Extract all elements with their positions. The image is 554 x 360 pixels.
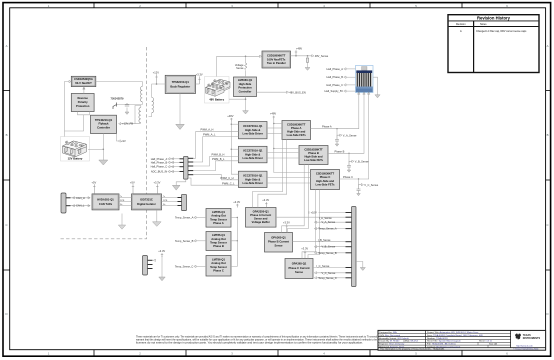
wire reverse polarity to NexFET arrow <box>83 87 85 94</box>
svg-text:Low-Side FETs: Low-Side FETs <box>287 133 307 137</box>
svg-text:Hall_Supply_5V: Hall_Supply_5V <box>325 89 344 93</box>
svg-text:A: A <box>6 44 8 48</box>
junction +12V <box>156 83 158 85</box>
chevron into CSD19506 <box>260 55 262 57</box>
phase B voltage sense divider and label <box>347 153 369 173</box>
svg-text:Flyback: Flyback <box>98 122 109 126</box>
svg-text:PWM_A_H: PWM_A_H <box>201 128 214 132</box>
svg-text:Sense: Sense <box>236 66 244 70</box>
svg-text:© Texas Instruments 2014: © Texas Instruments 2014 <box>513 348 539 351</box>
svg-text:V_C_Sense: V_C_Sense <box>364 183 378 187</box>
net label +9V <box>117 134 126 144</box>
svg-text:High-Side: High-Side <box>239 82 252 86</box>
svg-text:100V NexFETs: 100V NexFETs <box>267 57 286 61</box>
block U7 UCC27201A-Q1 driver A <box>239 122 268 139</box>
svg-text:D: D <box>5 312 7 316</box>
wire phase A shunt to OPA2350 <box>253 140 283 208</box>
svg-text:Sense: Sense <box>295 270 303 274</box>
svg-text:Revision History: Revision History <box>477 16 511 21</box>
wire aux winding to controller <box>121 123 141 125</box>
ground right of sense connector <box>356 262 365 271</box>
zone ticks top <box>94 3 462 8</box>
svg-text:Phase A: Phase A <box>322 125 332 129</box>
V_C_Sense into connector <box>314 271 345 275</box>
PWM_B_H wire <box>193 152 238 166</box>
svg-text:HVDA551-Q1: HVDA551-Q1 <box>97 197 114 201</box>
capacitor C1 flyback snubber <box>125 103 129 106</box>
wire reverse polarity to battery junction <box>65 115 84 131</box>
wire phase A output to motor <box>311 92 361 129</box>
svg-text:PWM_C_H: PWM_C_H <box>221 176 234 180</box>
ground below CAN transceiver <box>118 214 125 230</box>
svg-text:+10V: +10V <box>311 211 317 215</box>
svg-text:Rx: Rx <box>163 204 165 206</box>
svg-text:ADC_BUS_IN: ADC_BUS_IN <box>151 170 167 174</box>
svg-text:Tx: Tx <box>163 196 165 198</box>
ground below 48V sense divider <box>305 62 310 70</box>
svg-text:+3.3V: +3.3V <box>196 73 203 77</box>
power +3.3V isolator right <box>154 180 161 194</box>
ground below digital isolator <box>153 210 162 226</box>
wires CAN transceiver to isolator Tx /STB Rx <box>119 196 132 206</box>
wire battery negative to ground rail <box>88 148 103 150</box>
svg-text:V_B_Sense: V_B_Sense <box>355 159 369 163</box>
svg-text:Temp_Sense_C: Temp_Sense_C <box>318 276 337 280</box>
wire secondary to +12V rail <box>152 84 166 98</box>
svg-text:High-Side and: High-Side and <box>304 155 322 159</box>
power +48V fet rail <box>270 112 276 120</box>
zone ticks bottom <box>94 350 462 357</box>
svg-text:Number: TIDA-00281: Number: TIDA-00281 <box>427 337 449 340</box>
svg-text:Phase B: Phase B <box>335 149 345 153</box>
svg-text:Controller: Controller <box>97 125 110 129</box>
svg-text:Digital Isolator: Digital Isolator <box>137 202 156 206</box>
block U10 HVDA551-Q1 CAN TxRx <box>92 194 119 210</box>
Temp_Sense_A into connector <box>314 227 345 231</box>
svg-text:CAN TxRx: CAN TxRx <box>99 202 113 206</box>
wires driver C to phase C fets <box>267 178 311 184</box>
connector J2 controller interface connector <box>180 156 194 179</box>
svg-text:Temp_Sense_B: Temp_Sense_B <box>318 251 337 255</box>
svg-text:C: C <box>546 223 548 227</box>
wires driver B to phase B fets <box>267 153 299 159</box>
ground below flyback controller <box>99 134 108 166</box>
isolation dashed boundary <box>61 47 147 239</box>
wire fet +48V rail <box>273 120 310 173</box>
svg-text:60-V NexFET: 60-V NexFET <box>75 81 92 85</box>
svg-text:Analog Out: Analog Out <box>211 214 226 218</box>
svg-text:Designed for: N/A: Designed for: N/A <box>379 331 397 334</box>
svg-text:PWM_C_L: PWM_C_L <box>222 182 235 186</box>
node chevron into NexFET <box>69 80 71 82</box>
block U5 LM5060-Q1 High-Side Protection Controller <box>234 77 257 97</box>
title block <box>378 330 546 350</box>
wire reverse polarity bottom loop <box>78 112 90 115</box>
svg-text:High-Side &: High-Side & <box>245 152 260 156</box>
svg-text:UCC27201A-Q1: UCC27201A-Q1 <box>243 124 263 128</box>
svg-text:High-Side &: High-Side & <box>245 177 260 181</box>
wire phase B shunt to OPA365 B <box>282 165 305 233</box>
svg-text:Low-Side Driver: Low-Side Driver <box>242 181 262 185</box>
svg-text:Desc: TIDA-00281 Complete Boar: Desc: TIDA-00281 Complete Board, 100V To… <box>427 334 483 337</box>
svg-text:Phase C: Phase C <box>213 268 224 272</box>
svg-text:Low-Side Driver: Low-Side Driver <box>242 132 262 136</box>
svg-text:Voltage Buffer: Voltage Buffer <box>252 220 270 224</box>
svg-text:Two in Parallel: Two in Parallel <box>267 61 286 65</box>
svg-text:12V Battery: 12V Battery <box>68 156 83 160</box>
svg-text:+3.3V: +3.3V <box>158 249 165 253</box>
temp sense C label from LMT86 C <box>175 264 206 268</box>
svg-text:I_A_Sense: I_A_Sense <box>319 216 333 220</box>
svg-text:LMT86-Q1: LMT86-Q1 <box>212 210 225 214</box>
svg-text:Temp_Sense_A: Temp_Sense_A <box>318 227 337 231</box>
svg-text:Phase A: Phase A <box>213 221 224 225</box>
svg-text:+3.3V: +3.3V <box>154 180 161 184</box>
svg-text:Rx: Rx <box>120 204 122 206</box>
power +12V <box>153 70 159 84</box>
block Q1 CSD19536KTT Phase A FETs <box>282 121 311 140</box>
wire CAN_H <box>71 196 91 200</box>
ground below buck regulator <box>176 94 185 130</box>
svg-text:High-Side and: High-Side and <box>316 179 334 183</box>
svg-text:Low-Side Driver: Low-Side Driver <box>242 156 262 160</box>
svg-text:V_B_Sense: V_B_Sense <box>322 245 336 249</box>
svg-text:OPA365-Q1: OPA365-Q1 <box>271 236 286 240</box>
svg-text:Phase B Current: Phase B Current <box>268 240 289 244</box>
PWM_A_H wire <box>193 128 238 159</box>
net label 48V_BUS_EN <box>287 90 306 94</box>
svg-text:CAN_H: CAN_H <box>76 196 85 200</box>
TI logo <box>515 334 540 348</box>
power +48V driver rail <box>227 114 233 122</box>
svg-text:CAN_L: CAN_L <box>76 204 85 208</box>
svg-text:Low-Side FETs: Low-Side FETs <box>304 158 324 162</box>
wire OPA2350 to connector I_A_Sense <box>276 216 346 220</box>
power +3.3V opa365 C <box>301 247 308 259</box>
svg-text:LMT86-Q1: LMT86-Q1 <box>212 258 225 262</box>
svg-text:Controller: Controller <box>239 89 252 93</box>
PWM_A_L wire <box>193 133 238 163</box>
power +5V can <box>92 180 97 194</box>
resistor divider voltage sense <box>245 56 248 77</box>
svg-text:D: D <box>546 312 548 316</box>
power +5V isolator left <box>130 180 135 194</box>
svg-text:Sheet 1 of 11: Sheet 1 of 11 <box>479 340 493 343</box>
disclaimer paragraph <box>136 336 378 345</box>
svg-text:Phase A Current: Phase A Current <box>250 213 271 217</box>
ground below aux connector rail <box>159 256 165 281</box>
shunt resistor to 48V sense divider <box>306 55 308 62</box>
svg-text:750342879: 750342879 <box>111 97 125 101</box>
Temp_Sense_B into connector <box>314 251 345 255</box>
svg-text:Phase C: Phase C <box>343 175 353 179</box>
svg-text:File: TIDA-00281_Blk.SchDoc: File: TIDA-00281_Blk.SchDoc <box>427 343 457 346</box>
wire secondary bottom to ground stub <box>149 113 152 117</box>
svg-text:Phase B: Phase B <box>308 151 319 155</box>
block U15 OPA2350-Q1 phase A current sense and voltage buffer <box>246 208 277 228</box>
svg-text:Sense and: Sense and <box>254 217 268 221</box>
svg-text:Protection: Protection <box>238 86 252 90</box>
svg-text:Phase A: Phase A <box>291 126 302 130</box>
battery BT1 12V Battery <box>61 137 90 162</box>
svg-text:+3.3V: +3.3V <box>283 220 290 224</box>
svg-text:+3.3V: +3.3V <box>233 200 240 204</box>
svg-text:+3.3V: +3.3V <box>262 198 269 202</box>
net label 48V_Sense <box>312 54 329 58</box>
svg-text:PWM_B_H: PWM_B_H <box>212 152 225 156</box>
temp sense B label from LMT86 B <box>175 239 206 243</box>
svg-text:/STB: /STB <box>120 200 125 202</box>
wire phase C output to motor <box>340 92 370 179</box>
motor M1 BLDC motor <box>356 66 374 93</box>
transformer T1 primary winding <box>140 87 142 102</box>
power +48V at nexfet output <box>295 46 303 56</box>
power +3.3V aux connector <box>158 249 165 257</box>
motor hall sensor labels <box>325 67 356 93</box>
power +3.3V opa365 B <box>283 220 290 232</box>
svg-text:SVN: Rev: Not saved: SVN: Rev: Not saved <box>379 334 400 337</box>
svg-text:+5V: +5V <box>92 180 97 184</box>
connector J1 CAN connector <box>61 193 71 213</box>
svg-text:OPA365-Q1: OPA365-Q1 <box>292 262 307 266</box>
zone ticks right <box>546 91 551 271</box>
wire battery to protection controller ground rail <box>229 98 246 100</box>
net label +12V_FB <box>119 122 134 126</box>
PWM_C_L wire <box>188 178 239 186</box>
svg-text:Size: A4: Size: A4 <box>489 343 498 346</box>
svg-text:Analog Out: Analog Out <box>211 261 226 265</box>
svg-text:Hall_Phase_C: Hall_Phase_C <box>326 83 343 87</box>
wire phase A shunt return to OPA2350 <box>258 140 287 208</box>
svg-text:Reverse: Reverse <box>77 96 88 100</box>
svg-text:CSD19536KTT: CSD19536KTT <box>304 147 323 151</box>
ground right of motor <box>373 77 380 98</box>
block U13 LMT86-Q1 temp sensor phase B <box>206 232 231 251</box>
svg-text:I_C_Sense: I_C_Sense <box>316 264 330 268</box>
svg-text:+3.3V: +3.3V <box>301 247 308 251</box>
hall net labels into controller connector <box>151 157 180 174</box>
zone numbers top <box>48 4 509 8</box>
block U9 UCC27201A-Q1 driver C <box>239 171 268 187</box>
svg-text:OPA2350-Q1: OPA2350-Q1 <box>253 209 270 213</box>
svg-text:Mod. 8/14/14: Mod. 8/14/14 <box>405 341 419 343</box>
svg-text:Temp Sensor: Temp Sensor <box>210 265 227 269</box>
svg-text:Phase C Current: Phase C Current <box>288 266 309 270</box>
block U12 LMT86-Q1 temp sensor phase A <box>206 209 231 228</box>
svg-text:Hall_Phase_C: Hall_Phase_C <box>151 165 168 169</box>
svg-text:TPS40210-Q1: TPS40210-Q1 <box>95 118 113 122</box>
junction at voltage sense tap <box>245 56 247 58</box>
block U3 TPS40210-Q1 Flyback Controller <box>91 115 117 133</box>
svg-text:+48V: +48V <box>296 46 302 50</box>
svg-text:CSD19536KTT: CSD19536KTT <box>316 172 335 176</box>
svg-text:Phase B: Phase B <box>213 244 224 248</box>
transformer T1 secondary winding <box>152 98 154 113</box>
phase C voltage sense divider and label <box>357 178 379 195</box>
transformer T1 auxiliary winding <box>139 108 141 123</box>
svg-text:Temp Sensor: Temp Sensor <box>210 217 227 221</box>
svg-text:Changed LC filter cap, DRV cur: Changed LC filter cap, DRV current sense… <box>476 30 527 33</box>
svg-text:http://www.ti.com: http://www.ti.com <box>516 345 533 348</box>
connector J5 sense output connector <box>346 207 357 287</box>
svg-text:Revision: Revision <box>456 23 466 26</box>
battery BT2 48V Battery <box>205 77 231 104</box>
svg-text:A: A <box>547 44 549 48</box>
svg-text:ISO7331C: ISO7331C <box>140 197 153 201</box>
svg-text:Engineer: Brian Dempsey: Engineer: Brian Dempsey <box>379 343 405 346</box>
svg-text:UCC27201A-Q1: UCC27201A-Q1 <box>243 149 263 153</box>
power +3.3V buck output <box>196 73 203 85</box>
svg-text:LMT86-Q1: LMT86-Q1 <box>212 233 225 237</box>
svg-text:Hall_Phase_A: Hall_Phase_A <box>151 157 168 161</box>
svg-text:Protection: Protection <box>76 104 90 108</box>
svg-text:I_B_Sense: I_B_Sense <box>318 238 332 242</box>
svg-text:48V_Sense: 48V_Sense <box>315 54 329 58</box>
svg-text:Buck Regulator: Buck Regulator <box>170 84 190 88</box>
svg-text:Temp_Sense_C: Temp_Sense_C <box>175 264 194 268</box>
zone letters right <box>546 44 548 316</box>
svg-text:High-Side &: High-Side & <box>245 128 260 132</box>
wire phase B output to motor <box>328 92 365 154</box>
zone ticks left <box>3 91 10 271</box>
svg-text:Drawn By: M. Helder: Drawn By: M. Helder <box>379 340 399 343</box>
svg-text:TPS62150-Q1: TPS62150-Q1 <box>172 80 190 84</box>
svg-text:High-Side and: High-Side and <box>287 130 305 134</box>
wire 12V battery positive rail <box>65 82 70 137</box>
block U6 CSD19506KTT 100V NexFETs Two in Parallel <box>262 51 291 68</box>
svg-text:Analog Out: Analog Out <box>211 237 226 241</box>
svg-text:Notes: Notes <box>480 23 487 26</box>
connector J3 isolator side connector <box>178 194 187 210</box>
block U16 OPA365-Q1 phase B current sense <box>265 233 293 253</box>
block U2 Reverse Polarity Protection <box>71 94 94 112</box>
wire OPA365 B to connector I_B_Sense <box>293 238 346 242</box>
PWM_C_H wire <box>193 175 238 181</box>
block U1 CSD18532Q5A 60-V NexFET <box>71 76 96 86</box>
wires isolator to connector J3 <box>162 196 178 206</box>
wire driver +48V rail <box>231 122 239 175</box>
ground below flyback primary cap <box>125 108 129 115</box>
power +3.3V opa2350 top <box>262 198 269 207</box>
svg-text:Temp_Sense_B: Temp_Sense_B <box>175 239 194 243</box>
label voltage sense <box>235 63 244 70</box>
svg-text:CSD18532Q5A: CSD18532Q5A <box>74 77 93 81</box>
wire nexfet out to 48V sense <box>291 55 312 57</box>
svg-text:licenses do not extend to the: licenses do not extend to the design in … <box>136 341 363 344</box>
svg-text:B: B <box>547 133 549 137</box>
wire CAN_L <box>71 204 91 208</box>
wire phase B shunt return <box>287 165 308 233</box>
wires LMT86 outputs to opa rail <box>231 217 238 267</box>
wire OPA365 C to connector I_C_Sense <box>313 264 346 268</box>
block Q2 CSD19536KTT Phase B FETs <box>299 146 328 165</box>
svg-text:Polarity: Polarity <box>78 100 88 104</box>
junction at +48V <box>295 55 297 57</box>
svg-text:Low-Side FETs: Low-Side FETs <box>315 182 335 186</box>
block U11 ISO7331C Digital Isolator <box>132 194 162 210</box>
svg-text:Hall_Phase_A: Hall_Phase_A <box>327 67 344 71</box>
ground below 48V battery and protection controller <box>243 97 249 114</box>
wire buck output <box>196 83 200 85</box>
svg-text:/STB: /STB <box>163 200 168 202</box>
svg-text:PWM_A_L: PWM_A_L <box>203 133 216 137</box>
zone letters left <box>5 44 7 316</box>
wire NexFET to transformer primary <box>96 82 143 87</box>
V_B_Sense into connector <box>314 245 345 249</box>
wire phase C shunt return <box>308 190 320 259</box>
Temp_Sense_C into connector <box>314 276 345 280</box>
svg-text:CSD19506KTT: CSD19506KTT <box>267 54 286 58</box>
svg-text:V_A_Sense: V_A_Sense <box>343 133 357 137</box>
V_A_Sense into connector <box>314 220 345 224</box>
connector J4 aux connector bottom left <box>143 256 153 276</box>
wires driver A to phase A fets <box>267 128 282 134</box>
svg-text:Sense: Sense <box>275 244 283 248</box>
wire protection controller EN output <box>257 91 287 93</box>
svg-text:Hall_Phase_B: Hall_Phase_B <box>327 75 344 79</box>
svg-text:Hall_Phase_B: Hall_Phase_B <box>151 160 168 164</box>
aux connector chevron <box>153 259 155 261</box>
svg-text:INSTRUMENTS: INSTRUMENTS <box>523 337 541 340</box>
ground below controller connector <box>172 179 185 190</box>
wire 48V battery top to nexfet input <box>217 56 260 76</box>
svg-text:Sheet Title: System Block Diag: Sheet Title: System Block Diagram <box>427 340 461 343</box>
svg-text:This information is the proper: This information is the property of Texa… <box>380 348 445 351</box>
block U8 UCC27201A-Q1 driver B <box>239 146 268 163</box>
svg-text:Phase C: Phase C <box>320 175 331 179</box>
svg-text:C: C <box>5 223 7 227</box>
zone numbers bottom <box>48 352 509 356</box>
svg-text:+5V: +5V <box>130 180 135 184</box>
svg-text:+9V: +9V <box>121 139 126 143</box>
svg-text:PWM_B_L: PWM_B_L <box>212 157 225 161</box>
svg-text:B: B <box>6 133 8 137</box>
svg-text:LM5060-Q1: LM5060-Q1 <box>238 78 253 82</box>
svg-text:+12V: +12V <box>153 70 159 74</box>
block U14 LMT86-Q1 temp sensor phase C <box>206 256 231 277</box>
wire primary to switch node <box>117 102 143 105</box>
svg-text:+12V_FB: +12V_FB <box>122 122 133 126</box>
svg-text:Assembly Variant: 001 Default: Assembly Variant: 001 Default <box>379 337 409 340</box>
svg-text:UCC27201A-Q1: UCC27201A-Q1 <box>243 174 263 178</box>
block U17 OPA365-Q1 phase C current sense <box>285 259 313 279</box>
temp sense A label from LMT86 A <box>175 216 206 220</box>
svg-text:Tx: Tx <box>120 196 122 198</box>
switch symbol flyback FET <box>113 103 117 110</box>
svg-text:CSD19536KTT: CSD19536KTT <box>287 122 306 126</box>
svg-text:Temp_Sense_A: Temp_Sense_A <box>175 216 194 220</box>
revision history table <box>448 15 539 73</box>
block U4 TPS62150-Q1 Buck Regulator <box>165 75 195 93</box>
phase A voltage sense divider and label <box>335 128 357 146</box>
PWM_B_L wire <box>193 157 238 170</box>
svg-text:+48V: +48V <box>227 114 233 118</box>
svg-text:Temp Sensor: Temp Sensor <box>210 240 227 244</box>
svg-text:+48V: +48V <box>270 112 276 116</box>
block Q3 CSD19536KTT Phase C FETs <box>311 170 340 190</box>
svg-text:V_C_Sense: V_C_Sense <box>322 271 336 275</box>
svg-text:48V_BUS_EN: 48V_BUS_EN <box>289 90 306 94</box>
wire aux winding bottom <box>135 106 141 124</box>
wire phase C shunt to OPA365 C <box>302 190 316 259</box>
+10V into connector <box>309 211 346 215</box>
svg-text:V_A_Sense: V_A_Sense <box>322 220 336 224</box>
svg-text:Project Title: Automotive 48V: Project Title: Automotive 48V 1kW BLDC M… <box>427 331 479 334</box>
svg-text:48V Battery: 48V Battery <box>209 97 224 101</box>
power +3.3V opa2350 rail <box>233 200 240 208</box>
